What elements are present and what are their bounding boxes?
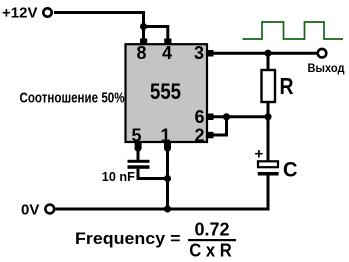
svg-text:0V: 0V [21,202,39,219]
wire R bottom to C top [267,102,270,161]
wire pin 3 to output [213,52,318,55]
junction supply split [140,23,147,30]
svg-text:10 nF: 10 nF [102,169,135,184]
wire output junction to R top [267,53,270,70]
junction pin 5 stub dot [135,145,142,152]
svg-text:555: 555 [150,79,181,104]
wire pin 1 to 0V rail [166,148,169,209]
wire pin 5 to bypass cap [137,148,140,160]
svg-text:+12V: +12V [2,5,37,22]
svg-text:Frequency =: Frequency = [75,230,181,248]
svg-text:4: 4 [162,43,172,63]
resistor R [262,70,276,102]
svg-text:0.72: 0.72 [194,220,229,240]
wire branch to pin 4 [144,27,168,41]
wire C bottom to 0V rail [56,176,269,210]
pin 2 tab [207,132,214,139]
junction output-R [264,50,271,57]
wire pin 2 loop to pin 6 [213,117,227,135]
pin 4 tab [164,39,171,45]
wire +12V rail to pin 8 [54,13,144,41]
square wave trace [243,22,344,39]
terminal output [318,49,327,58]
svg-text:+: + [255,146,264,163]
capacitor 10nF top plate [128,160,150,163]
formula fraction bar [188,239,236,241]
svg-text:C x R: C x R [189,241,232,261]
svg-text:Соотношение 50%: Соотношение 50% [20,89,125,106]
junction pin 1 stub dot [164,145,171,152]
junction pin1-0V [164,205,171,212]
svg-text:2: 2 [194,126,204,146]
svg-text:Выход: Выход [308,61,345,75]
junction R-C-pin6 [264,113,271,120]
terminal +12V [43,8,51,16]
svg-text:C: C [283,159,298,182]
junction cap-pin1 [164,175,171,182]
pin 8 tab [140,39,147,45]
capacitor C top plate [258,161,278,167]
junction pin6-pin2 [223,113,230,120]
svg-text:6: 6 [194,107,204,127]
svg-text:3: 3 [194,43,204,63]
capacitor C bottom plate [258,172,279,176]
terminal 0V [45,205,54,214]
svg-text:R: R [280,73,294,99]
pin 5 tab [135,142,142,149]
pin 1 tab [164,142,171,149]
pin 6 tab [207,114,214,121]
op-amp U1 555 body [126,44,208,142]
svg-text:8: 8 [136,43,146,63]
pin 3 tab [207,50,214,57]
wire bypass cap to pin 1 wire [138,169,168,179]
wire pin 6 to junction [213,115,268,118]
capacitor 10nF bottom plate [128,165,150,169]
